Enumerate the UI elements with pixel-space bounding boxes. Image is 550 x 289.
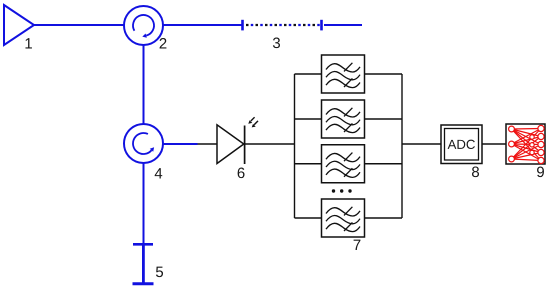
wire photodiode to filter bank [245, 143, 295, 145]
wire circulator4 to mirror5 [143, 163, 145, 243]
stub right from filter F3 [365, 163, 403, 165]
amplifier 1 (source triangle) [4, 5, 34, 45]
wire filter bank to ADC [402, 143, 441, 145]
filter bank right bus [401, 74, 403, 218]
filter F3 [322, 145, 365, 183]
wire circulator2 to circulator4 [143, 45, 145, 124]
label 6 [238, 168, 245, 179]
wire ADC to neural network [482, 143, 506, 145]
stub right from filter F4 [365, 217, 403, 219]
photodiode light arrow a [248, 117, 254, 124]
fiber splice tick right [320, 20, 323, 31]
neural network 9 [506, 124, 545, 164]
label 2 [160, 38, 167, 48]
stub left to filter F3 [295, 163, 322, 165]
circulator 4 [124, 124, 163, 163]
stub right from filter F1 [365, 73, 403, 75]
circulator 2 [124, 6, 163, 45]
label 5 [156, 267, 163, 277]
label 7 [354, 240, 361, 250]
stub left to filter F1 [295, 73, 322, 75]
wire into photodiode (electrical) [198, 143, 218, 145]
fiber span 3 (dashed, black) [246, 24, 320, 26]
filter F2 [322, 100, 365, 138]
wire fiber3 open end [324, 24, 362, 26]
ellipsis dots [332, 189, 352, 192]
filter F4 [322, 199, 365, 237]
fiber span 3 (dashed, blue) [246, 24, 320, 26]
stub right from filter F2 [365, 118, 403, 120]
label 9 [537, 167, 544, 178]
stub left to filter F2 [295, 118, 322, 120]
photodiode light arrow b [252, 121, 258, 128]
ADC 8 [441, 125, 482, 164]
label 4 [155, 168, 163, 178]
stub left to filter F4 [295, 217, 322, 219]
fiber splice tick left [241, 20, 244, 31]
wire circulator4 to photodiode (optical) [163, 143, 198, 145]
photodiode 6 [217, 125, 245, 164]
filter F1 [322, 55, 365, 93]
filter bank left bus [294, 74, 296, 218]
wire amplifier1 to circulator2 [34, 24, 124, 26]
label 3 [273, 38, 280, 49]
wire circulator2 to fiber3 [163, 24, 242, 26]
label 1 [25, 38, 31, 48]
mirror 5 (reflector) [133, 244, 154, 284]
label 8 [472, 167, 479, 178]
